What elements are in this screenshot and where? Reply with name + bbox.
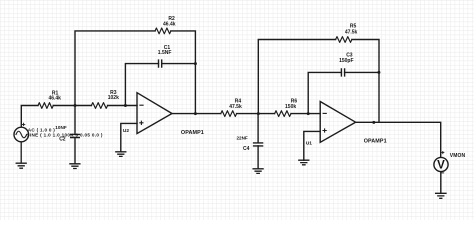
resistor R1 <box>38 103 53 109</box>
wire U1 non-inverting input to ground <box>304 131 320 160</box>
capacitor C4 <box>254 143 263 146</box>
op-amp U2 plus glyph <box>140 121 143 124</box>
wire AC top to node A row <box>21 106 38 127</box>
junction U1 output <box>372 121 375 124</box>
resistor R6 <box>275 111 291 117</box>
wire C3 left branch <box>308 72 341 113</box>
capacitor C2 <box>71 134 80 137</box>
svg-text:U1: U1 <box>306 140 312 146</box>
svg-text:47.5k: 47.5k <box>345 30 358 36</box>
wire C1 right to feedback vertical <box>162 63 196 65</box>
ground below AC source <box>16 142 26 168</box>
wire node B down to C4 <box>257 114 259 143</box>
svg-text:1.5NF: 1.5NF <box>158 50 172 56</box>
svg-text:47.5k: 47.5k <box>229 104 242 110</box>
junction node A <box>74 104 77 107</box>
svg-text:46.4k: 46.4k <box>48 96 61 102</box>
AC source plus mark <box>22 123 24 125</box>
wire C3 right to feedback vertical <box>345 71 379 73</box>
svg-text:150pF: 150pF <box>339 58 353 64</box>
resistor R5 <box>336 37 352 43</box>
wire C2 to ground <box>74 138 76 164</box>
wire node A up to feedback <box>75 31 155 106</box>
op-amp U2 minus glyph <box>140 104 143 106</box>
op-amp U2 triangle <box>137 93 172 134</box>
wire node A down to C2 <box>74 106 76 135</box>
wire U1 output to VMON <box>356 122 441 157</box>
svg-text:OPAMP1: OPAMP1 <box>181 130 204 136</box>
svg-text:46.4k: 46.4k <box>163 22 176 28</box>
op-amp U1 plus glyph <box>323 129 326 132</box>
capacitor C3 <box>341 69 344 76</box>
svg-text:102k: 102k <box>108 95 119 101</box>
AC source V1 circle <box>14 127 29 142</box>
resistor R2 <box>155 28 171 34</box>
resistor R4 <box>221 111 237 117</box>
op-amp U1 minus glyph <box>323 112 326 114</box>
VMON minus mark <box>442 172 444 174</box>
wire VMON to ground <box>440 172 442 193</box>
junction R6/C3 inverting node <box>307 112 310 115</box>
wire node B up to R5 feedback <box>258 40 335 114</box>
svg-text:C4: C4 <box>243 146 250 152</box>
resistor R3 <box>91 103 107 109</box>
op-amp U1 triangle <box>320 102 355 143</box>
wire C1 left branch <box>125 64 158 106</box>
ground below C2 <box>70 164 80 169</box>
junction C3 right <box>377 71 380 74</box>
wire C4 to ground <box>257 146 259 169</box>
svg-text:R5: R5 <box>350 23 357 29</box>
wire R1 to R3 <box>53 105 91 107</box>
svg-text:150k: 150k <box>285 104 296 110</box>
svg-text:22NF: 22NF <box>236 135 247 140</box>
wire R5 to right feedback vertical <box>352 40 379 123</box>
svg-text:V: V <box>437 160 445 172</box>
voltmeter VMON circle <box>434 157 448 171</box>
svg-text:10NF: 10NF <box>55 125 67 130</box>
ground below U1 plus input <box>299 160 309 165</box>
wire R4 to R6 <box>237 113 275 115</box>
junction C1 right <box>194 62 197 65</box>
wire R3 to op-amp U2 inverting input <box>108 105 137 107</box>
VMON plus mark <box>442 152 444 154</box>
ground below VMON <box>436 193 446 198</box>
svg-text:C2: C2 <box>59 136 66 142</box>
capacitor C1 <box>159 60 162 67</box>
ground below C4 <box>253 169 263 174</box>
wire U2 non-inverting input to ground <box>121 123 137 151</box>
junction U2 output <box>194 112 197 115</box>
AC source sine wave <box>16 131 27 138</box>
svg-text:U2: U2 <box>123 128 129 134</box>
wire U2 output to R4 <box>172 113 221 115</box>
wire R6 to op-amp U1 inverting input <box>291 113 320 115</box>
junction node B <box>257 112 260 115</box>
ground below U2 plus input <box>116 152 126 157</box>
junction R3/C1 inverting node <box>124 104 127 107</box>
wire R2 to right feedback vertical <box>171 31 196 114</box>
svg-text:OPAMP1: OPAMP1 <box>364 138 387 144</box>
svg-text:VMON: VMON <box>450 153 466 159</box>
